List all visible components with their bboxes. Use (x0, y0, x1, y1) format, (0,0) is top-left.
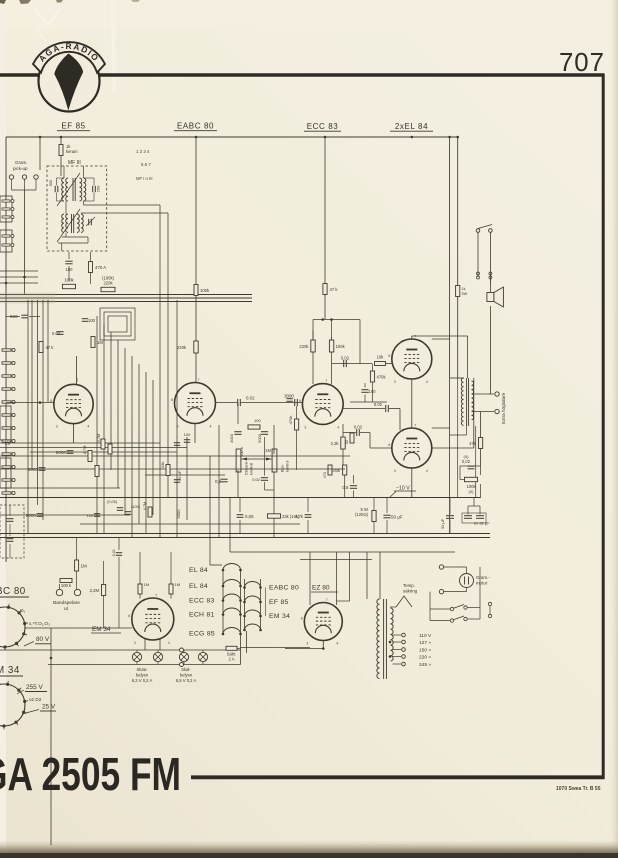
svg-text:4: 4 (210, 425, 212, 429)
svg-text:7: 7 (414, 335, 416, 339)
svg-text:kontrol: kontrol (286, 460, 290, 472)
svg-text:6,3 V 0,2 A: 6,3 V 0,2 A (132, 678, 153, 683)
svg-text:707: 707 (559, 49, 605, 77)
svg-text:4,7M: 4,7M (97, 434, 101, 442)
svg-text:470k: 470k (288, 416, 293, 425)
svg-text:470: 470 (323, 472, 327, 478)
svg-text:127 »: 127 » (419, 640, 431, 646)
svg-text:1M: 1M (144, 582, 150, 587)
svg-text:Gram.: Gram. (15, 160, 28, 165)
svg-text:0,5: 0,5 (215, 479, 222, 484)
svg-text:7: 7 (414, 424, 416, 428)
svg-text:ut: ut (64, 606, 69, 612)
svg-text:4,7M: 4,7M (143, 502, 147, 510)
svg-text:100: 100 (87, 514, 93, 518)
svg-text:(0): (0) (469, 489, 475, 494)
svg-text:ECC 83: ECC 83 (189, 598, 215, 605)
svg-text:0.02: 0.02 (52, 331, 61, 336)
svg-text:1M: 1M (175, 582, 181, 587)
svg-text:6: 6 (299, 399, 301, 403)
svg-text:47k: 47k (469, 441, 477, 446)
svg-text:0.02: 0.02 (341, 356, 350, 361)
svg-text:6: 6 (301, 617, 303, 621)
svg-text:ECC 83: ECC 83 (307, 122, 339, 131)
svg-text:3000: 3000 (284, 394, 294, 399)
svg-text:10 μF: 10 μF (177, 470, 182, 481)
svg-text:4: 4 (426, 469, 428, 473)
svg-text:4: 4 (87, 425, 89, 429)
svg-text:47 k: 47 k (330, 287, 339, 292)
svg-text:33k: 33k (160, 462, 165, 468)
svg-text:0.02: 0.02 (252, 477, 261, 482)
svg-text:Bandspelare: Bandspelare (53, 600, 80, 606)
svg-text:47 k: 47 k (46, 345, 55, 350)
svg-text:Diskant-: Diskant- (245, 460, 249, 475)
svg-text:(120Ω): (120Ω) (355, 512, 369, 517)
svg-text:3000: 3000 (229, 433, 234, 443)
svg-text:x,⁴T.O₁,O₃: x,⁴T.O₁,O₃ (29, 621, 50, 626)
svg-text:100k: 100k (64, 278, 74, 283)
svg-text:3: 3 (394, 469, 396, 473)
svg-text:Temp.: Temp. (403, 583, 415, 588)
svg-text:5000: 5000 (176, 509, 181, 519)
svg-text:2,2M: 2,2M (90, 588, 100, 593)
svg-text:200: 200 (96, 185, 101, 192)
svg-text:5 6 7: 5 6 7 (141, 162, 151, 167)
svg-text:100k: 100k (336, 344, 346, 349)
svg-text:7: 7 (325, 379, 327, 383)
svg-text:470k: 470k (377, 375, 387, 380)
svg-text:4: 4 (337, 425, 339, 429)
svg-text:100: 100 (254, 418, 261, 423)
svg-text:motor: motor (476, 581, 488, 586)
svg-text:7: 7 (198, 378, 200, 382)
svg-text:500: 500 (49, 180, 53, 186)
svg-text:2xEL 84: 2xEL 84 (395, 122, 428, 131)
svg-text:100: 100 (88, 318, 96, 323)
svg-text:EABC 80: EABC 80 (177, 122, 214, 131)
svg-text:EL 84: EL 84 (189, 567, 208, 574)
svg-text:6: 6 (388, 443, 390, 447)
svg-text:3: 3 (394, 380, 396, 384)
svg-text:LV: LV (5, 441, 11, 447)
svg-text:470 Λ: 470 Λ (95, 265, 106, 270)
svg-text:100 k: 100 k (239, 447, 244, 457)
svg-text:50 μF: 50 μF (391, 515, 403, 520)
svg-text:Skal-: Skal- (181, 667, 191, 672)
svg-text:Extra högtalare: Extra högtalare (501, 392, 506, 424)
svg-text:MF III: MF III (68, 160, 81, 166)
svg-text:−10 V: −10 V (396, 486, 410, 492)
svg-text:32 μF: 32 μF (440, 518, 445, 529)
svg-text:6: 6 (171, 398, 173, 402)
svg-text:ECG 85: ECG 85 (189, 631, 215, 638)
svg-text:5000: 5000 (257, 433, 262, 443)
svg-text:3: 3 (134, 641, 136, 645)
svg-text:BC 80: BC 80 (0, 586, 26, 597)
svg-text:EF 85: EF 85 (269, 599, 289, 606)
svg-text:1M: 1M (265, 448, 271, 453)
svg-text:100: 100 (66, 267, 74, 272)
svg-text:3: 3 (306, 642, 308, 646)
svg-text:1M: 1M (81, 564, 88, 569)
svg-text:7: 7 (326, 598, 328, 602)
svg-text:0,01: 0,01 (112, 549, 116, 556)
svg-text:6,5 V 0,2 A: 6,5 V 0,2 A (176, 678, 197, 683)
svg-text:3: 3 (304, 425, 306, 429)
svg-text:0,5: 0,5 (342, 485, 349, 490)
svg-text:EZ 80: EZ 80 (312, 585, 330, 592)
svg-text:MF I o III: MF I o III (136, 176, 153, 181)
svg-text:245 »: 245 » (419, 662, 431, 668)
svg-text:0,02: 0,02 (462, 459, 471, 464)
svg-text:6: 6 (388, 354, 390, 358)
svg-text:ECH 81: ECH 81 (189, 612, 215, 619)
svg-text:M 34: M 34 (0, 665, 20, 676)
svg-text:belysn: belysn (180, 673, 193, 678)
svg-text:4: 4 (336, 642, 338, 646)
svg-text:150 »: 150 » (419, 647, 431, 653)
svg-text:5000: 5000 (28, 467, 39, 472)
svg-text:EM 34: EM 34 (92, 626, 111, 633)
svg-text:100k: 100k (200, 288, 210, 293)
svg-text:110 V: 110 V (419, 633, 432, 639)
svg-text:EL 84: EL 84 (189, 583, 208, 590)
svg-text:pick-up: pick-up (13, 166, 28, 171)
svg-text:GA 2505 FM: GA 2505 FM (0, 748, 181, 800)
svg-text:Gram.-: Gram.- (476, 575, 490, 580)
svg-text:4: 4 (168, 641, 170, 645)
svg-text:O₁: O₁ (20, 608, 26, 613)
svg-text:1M: 1M (97, 340, 103, 345)
svg-text:02: 02 (345, 440, 349, 444)
svg-text:5000: 5000 (26, 513, 37, 518)
svg-text:80 V: 80 V (36, 636, 50, 643)
svg-text:100: 100 (184, 432, 191, 437)
svg-text:7: 7 (76, 378, 78, 382)
svg-text:o2 D2: o2 D2 (29, 697, 42, 702)
svg-text:255 V: 255 V (26, 684, 43, 691)
svg-text:6: 6 (128, 614, 130, 618)
svg-text:2,2k: 2,2k (331, 441, 340, 446)
svg-text:0.02: 0.02 (374, 402, 383, 407)
svg-text:0,05: 0,05 (245, 514, 254, 519)
svg-text:0,02: 0,02 (354, 425, 363, 430)
svg-text:5000: 5000 (56, 450, 67, 455)
svg-text:EM 34: EM 34 (269, 613, 290, 620)
svg-text:0.02: 0.02 (246, 396, 255, 401)
svg-text:220k: 220k (299, 344, 309, 349)
svg-text:säkring: säkring (403, 589, 418, 594)
svg-text:4,7M: 4,7M (82, 446, 87, 455)
svg-text:EF 85: EF 85 (61, 122, 85, 131)
svg-text:220 »: 220 » (419, 654, 431, 660)
svg-text:220k: 220k (177, 345, 187, 350)
svg-text:keram: keram (66, 149, 78, 154)
svg-text:2 A: 2 A (228, 657, 234, 662)
svg-text:belysn: belysn (136, 673, 149, 678)
svg-text:4: 4 (426, 380, 428, 384)
svg-text:3: 3 (56, 425, 58, 429)
svg-text:220k: 220k (103, 281, 113, 286)
svg-text:4,7k: 4,7k (295, 514, 304, 519)
svg-text:1 2 3 4: 1 2 3 4 (136, 149, 150, 154)
svg-text:25 V: 25 V (42, 704, 56, 711)
svg-text:(100): (100) (131, 505, 141, 509)
svg-text:(0,05): (0,05) (107, 500, 118, 504)
svg-text:100: 100 (369, 389, 377, 394)
svg-text:Skäa-: Skäa- (137, 667, 149, 672)
svg-text:Bas-: Bas- (281, 463, 285, 472)
svg-text:7: 7 (155, 594, 157, 598)
svg-text:3: 3 (177, 425, 179, 429)
svg-text:EABC 80: EABC 80 (269, 585, 299, 592)
svg-text:1070 Swea Tr. B 55: 1070 Swea Tr. B 55 (556, 786, 601, 792)
svg-text:1k: 1k (462, 287, 466, 291)
svg-text:100 k: 100 k (61, 583, 72, 588)
svg-text:3W: 3W (462, 292, 468, 296)
svg-text:10k: 10k (377, 355, 385, 360)
